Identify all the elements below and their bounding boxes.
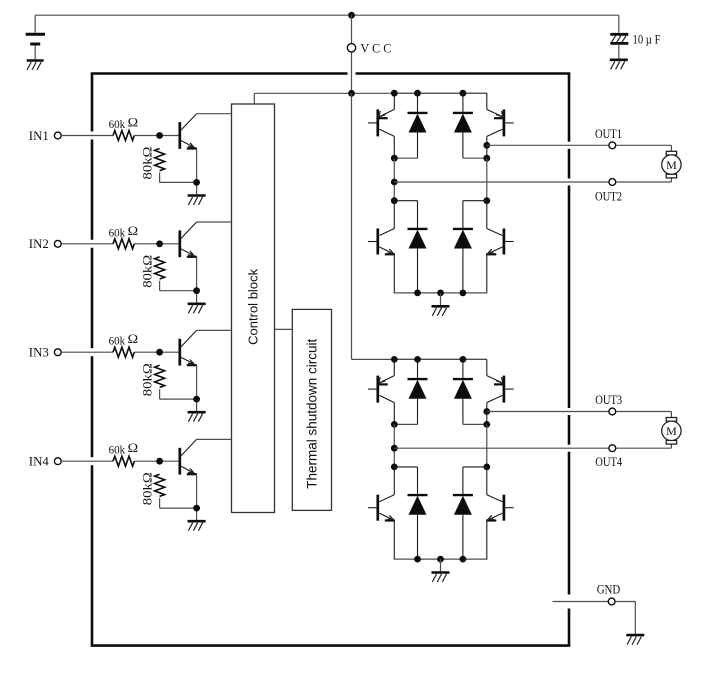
wire R4b to emitter node xyxy=(160,498,197,508)
terminal OUT1 xyxy=(609,142,616,149)
H2 node bottom center xyxy=(437,556,444,563)
wire C1 branch xyxy=(34,15,36,32)
transistor Q7 xyxy=(368,201,395,293)
resistor R1b 80k xyxy=(155,149,165,171)
transistor Q12 xyxy=(486,467,514,559)
transistor Q4 xyxy=(180,439,197,474)
H2 wire right leg mid xyxy=(486,424,488,467)
wire Q3 emitter down xyxy=(196,365,198,411)
emitter arrow Q3 xyxy=(188,360,194,365)
control block U1 xyxy=(232,104,275,513)
label IN1 xyxy=(29,128,49,143)
emitter arrow Q5 xyxy=(379,111,386,117)
node IN1 base xyxy=(156,132,163,139)
wire VCC top rail xyxy=(35,14,619,16)
H2 node bottom diode left xyxy=(414,556,421,563)
emitter arrow Q4 xyxy=(188,469,194,474)
ground (Q3) xyxy=(188,412,206,422)
emitter arrow Q11 xyxy=(387,515,393,519)
wire R1b to emitter node xyxy=(160,173,197,183)
emitter arrow Q12 xyxy=(488,515,494,519)
H2 node mid left xyxy=(391,421,398,428)
wire GND stub xyxy=(553,601,609,603)
terminal IN3 xyxy=(54,349,61,356)
wire Q3 collector to control block xyxy=(197,329,232,331)
node VCC internal xyxy=(348,90,355,97)
wire IN3 to resistor xyxy=(61,351,113,353)
wire Q1 collector to control block xyxy=(197,113,232,115)
transistor Q8 xyxy=(486,201,514,293)
terminal IN2 xyxy=(54,240,61,247)
svg-text:60k: 60k xyxy=(109,443,126,457)
label IN4 xyxy=(29,454,49,469)
svg-text:IN3: IN3 xyxy=(29,345,49,360)
wire R2b to emitter node xyxy=(160,281,197,291)
node Q3 emitter xyxy=(193,396,200,403)
resistor R3b 80k xyxy=(155,365,165,387)
H2 wire left leg mid xyxy=(393,424,395,467)
H2 ground (bridge) xyxy=(432,573,450,583)
wire control to thermal xyxy=(275,328,293,330)
wire R3b to emitter node xyxy=(160,389,197,399)
H2 wire bridge top rail xyxy=(394,358,487,360)
transistor Q3 xyxy=(180,330,197,365)
H1 node lower right xyxy=(483,197,490,204)
node OUT4 tap xyxy=(391,445,398,452)
transistor Q10 xyxy=(487,359,514,424)
wire GND to ground xyxy=(615,602,635,634)
H2 node bottom diode right xyxy=(460,556,467,563)
svg-text:80kΩ: 80kΩ xyxy=(139,255,154,288)
terminal OUT2 xyxy=(609,179,616,186)
svg-text:OUT1: OUT1 xyxy=(595,126,622,141)
IC boundary box xyxy=(91,74,571,646)
thermal shutdown circuit U2 xyxy=(292,309,331,510)
label OUT2 xyxy=(595,189,622,204)
label R2b value 80kOhm xyxy=(139,255,154,288)
label GND xyxy=(597,581,621,596)
wire C1 to ground xyxy=(34,46,36,60)
H2 node lower left xyxy=(391,464,398,471)
label R2a value 60k xyxy=(109,225,126,239)
wire IN4 to resistor xyxy=(61,460,113,462)
wire IN2 to resistor xyxy=(61,243,113,245)
wire C2 to ground xyxy=(618,45,620,59)
H2 wire bottom to ground xyxy=(440,559,442,571)
wire VCC terminal into IC xyxy=(351,52,353,93)
resistor R3a 60k xyxy=(113,347,134,357)
resistor R4b 80k xyxy=(155,474,165,496)
terminal OUT3 xyxy=(609,408,616,415)
transistor Q9 xyxy=(368,359,394,424)
resistor R1a 60k xyxy=(113,131,134,141)
wire VCC drop to terminal xyxy=(351,15,353,43)
wire Q1 emitter down xyxy=(196,149,198,195)
ground (Q2) xyxy=(188,304,206,314)
label IN3 xyxy=(29,345,49,360)
node OUT1 tap xyxy=(483,142,490,149)
node Q4 emitter xyxy=(193,505,200,512)
H2 node lower right xyxy=(483,464,490,471)
diode D2 xyxy=(453,93,473,158)
H2 wire bridge bottom rail xyxy=(394,558,488,560)
resistor R4a 60k xyxy=(113,456,134,466)
wire resistor to node IN1 xyxy=(134,135,178,137)
H2 wire diode right join xyxy=(463,423,487,425)
diode D3 xyxy=(394,201,427,293)
resistor R2a 60k xyxy=(113,239,134,249)
wire IN1 to resistor xyxy=(61,135,113,137)
H2 node mid right xyxy=(483,421,490,428)
svg-text:Ω: Ω xyxy=(128,440,139,455)
label R1a value 60k xyxy=(109,117,126,131)
svg-text:OUT4: OUT4 xyxy=(595,454,622,469)
H1 wire left leg mid xyxy=(393,158,395,201)
emitter arrow Q2 xyxy=(188,251,194,256)
svg-text:60k: 60k xyxy=(109,225,126,239)
H1 node lower left xyxy=(391,197,398,204)
H2 node rail left emitter xyxy=(391,356,398,363)
svg-text:60k: 60k xyxy=(109,334,126,348)
label R4b value 80kOhm xyxy=(139,472,154,505)
H1 node mid left xyxy=(391,155,398,162)
wire C2 branch xyxy=(618,15,620,32)
label R4a value 60k xyxy=(109,443,126,457)
label OUT1 xyxy=(595,126,622,141)
H1 wire bridge bottom rail xyxy=(394,292,488,294)
terminal IN1 xyxy=(54,132,61,139)
wire resistor to node IN3 xyxy=(134,351,178,353)
node Q2 emitter xyxy=(193,287,200,294)
svg-text:M: M xyxy=(666,158,677,172)
svg-text:IN1: IN1 xyxy=(29,128,49,143)
label IN2 xyxy=(29,236,49,251)
emitter arrow Q9 xyxy=(379,377,386,383)
ground (Q1) xyxy=(188,196,206,206)
H1 wire right leg mid xyxy=(486,158,488,201)
svg-text:IN4: IN4 xyxy=(29,454,49,469)
diode D5 xyxy=(408,359,428,424)
H1 node rail diode right xyxy=(460,90,467,97)
wire Q2 collector to control block xyxy=(197,221,232,223)
transistor Q1 xyxy=(180,114,197,149)
emitter arrow Q6 xyxy=(496,111,503,117)
node IN4 base xyxy=(156,458,163,465)
wire resistor to node IN2 xyxy=(134,243,178,245)
label OUT4 xyxy=(595,454,622,469)
node OUT2 tap xyxy=(391,179,398,186)
diode D8 xyxy=(453,467,487,559)
svg-text:10 µ F: 10 µ F xyxy=(633,32,661,47)
node VCC rail junction xyxy=(348,12,355,19)
transistor Q5 xyxy=(368,93,394,158)
terminal GND xyxy=(608,598,615,605)
wire OUT2 xyxy=(394,178,671,182)
wire OUT3 xyxy=(487,412,672,418)
svg-text:80kΩ: 80kΩ xyxy=(139,363,154,396)
wire Q4 collector to control block xyxy=(197,438,232,440)
transistor Q2 xyxy=(180,222,197,257)
wire internal VCC rail xyxy=(254,93,486,104)
svg-text:M: M xyxy=(666,424,677,438)
transistor Q11 xyxy=(368,467,395,559)
H1 node bottom diode right xyxy=(460,290,467,297)
emitter arrow Q7 xyxy=(387,249,393,253)
motor M2 xyxy=(662,418,681,445)
H1 node rail left emitter xyxy=(391,90,398,97)
diode D4 xyxy=(453,201,487,293)
emitter arrow Q1 xyxy=(188,143,194,148)
H2 wire diode left join xyxy=(394,423,417,425)
terminal OUT4 xyxy=(609,445,616,452)
diode D7 xyxy=(394,467,427,559)
svg-text:Ω: Ω xyxy=(128,115,139,130)
wire Q4 emitter down xyxy=(196,474,198,520)
label R3b value 80kOhm xyxy=(139,363,154,396)
wire VCC drop to lower bridge xyxy=(352,93,487,359)
label R4a unit ohm xyxy=(128,440,139,455)
label OUT3 xyxy=(595,392,622,407)
node OUT3 tap xyxy=(483,408,490,415)
svg-text:IN2: IN2 xyxy=(29,236,49,251)
label R2a unit ohm xyxy=(128,223,139,238)
node Q1 emitter xyxy=(193,179,200,186)
emitter arrow Q10 xyxy=(496,377,503,383)
H1 wire bottom to ground xyxy=(440,293,442,305)
svg-text:60k: 60k xyxy=(109,117,126,131)
svg-text:Thermal shutdown circuit: Thermal shutdown circuit xyxy=(304,338,319,488)
ground (C1) xyxy=(27,61,44,71)
diode D1 xyxy=(408,93,428,158)
H1 wire bridge top rail xyxy=(394,92,487,94)
H1 node rail diode left xyxy=(414,90,421,97)
node IN3 base xyxy=(156,349,163,356)
wire OUT1 xyxy=(487,145,672,151)
H1 wire diode left join xyxy=(394,157,417,159)
wire OUT4 xyxy=(394,444,671,448)
transistor Q6 xyxy=(487,93,514,158)
H2 node rail diode right xyxy=(460,356,467,363)
svg-text:GND: GND xyxy=(597,581,621,596)
svg-text:80kΩ: 80kΩ xyxy=(139,472,154,505)
emitter arrow Q8 xyxy=(488,249,494,253)
terminal IN4 xyxy=(54,458,61,465)
capacitor C1 xyxy=(26,34,45,44)
H1 ground (bridge) xyxy=(432,306,450,316)
svg-text:Control block: Control block xyxy=(246,268,261,344)
H1 node bottom diode left xyxy=(414,290,421,297)
terminal VCC xyxy=(347,44,355,52)
ground (Q4) xyxy=(188,521,206,531)
H1 node mid right xyxy=(483,155,490,162)
label VCC xyxy=(360,41,391,55)
H1 node bottom center xyxy=(437,290,444,297)
wire Q2 emitter down xyxy=(196,257,198,303)
node IN2 base xyxy=(156,240,163,247)
ground (GND) xyxy=(626,635,644,645)
ground (C2) xyxy=(610,60,628,70)
label C2 value 10 uF xyxy=(633,32,661,47)
svg-text:OUT2: OUT2 xyxy=(595,189,622,204)
H1 wire diode right join xyxy=(463,157,487,159)
label R3a value 60k xyxy=(109,334,126,348)
label R1a unit ohm xyxy=(128,115,139,130)
svg-text:80kΩ: 80kΩ xyxy=(139,147,154,180)
resistor R2b 80k xyxy=(155,257,165,279)
svg-text:OUT3: OUT3 xyxy=(595,392,622,407)
capacitor C2 xyxy=(610,34,628,43)
motor M1 xyxy=(662,151,681,178)
H2 node rail diode left xyxy=(414,356,421,363)
label R3a unit ohm xyxy=(128,331,139,346)
svg-text:Ω: Ω xyxy=(128,331,139,346)
diode D6 xyxy=(453,359,473,424)
label R1b value 80kOhm xyxy=(139,147,154,180)
svg-text:Ω: Ω xyxy=(128,223,139,238)
wire resistor to node IN4 xyxy=(134,460,178,462)
svg-text:V C C: V C C xyxy=(360,41,391,55)
